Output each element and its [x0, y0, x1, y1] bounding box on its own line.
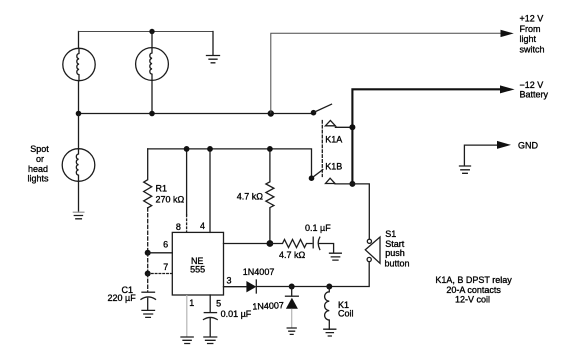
switch: light switch arm on lamps bus	[311, 104, 332, 115]
text: Spot or head lights	[27, 144, 49, 184]
wire: rail K1 to D2	[292, 286, 330, 288]
pin 1 label	[189, 298, 194, 308]
text: 4.7 kOhm (vertical resistor)	[237, 192, 264, 202]
svg-text:lights: lights	[27, 174, 49, 184]
svg-text:K1A, B DPST relay: K1A, B DPST relay	[435, 275, 512, 285]
svg-text:3: 3	[226, 275, 231, 285]
text: 1N4007 (D2)	[252, 300, 284, 311]
junction dot K1 coil top	[326, 284, 332, 290]
resistor 4.7k (vertical)	[266, 149, 274, 244]
capacitor C1 220uF (polarized)	[141, 274, 156, 311]
text: K1A, B DPST relay note	[435, 275, 512, 305]
ground (pin 5 / C2)	[204, 337, 217, 344]
pin 3 label	[226, 275, 231, 285]
arrowhead +12V	[501, 30, 514, 37]
svg-text:From: From	[520, 24, 541, 34]
junction dot D2	[289, 284, 295, 290]
wire: pin 6	[148, 252, 173, 254]
svg-text:GND: GND	[518, 140, 539, 150]
svg-text:5: 5	[216, 299, 221, 309]
wire: threshold pin to node	[224, 243, 270, 245]
svg-text:switch: switch	[520, 44, 545, 54]
svg-text:light: light	[520, 34, 537, 44]
push button S1	[365, 237, 380, 263]
svg-text:1N4007: 1N4007	[252, 300, 284, 311]
wire: pin6-pin7 vertical (dashed)	[147, 253, 149, 274]
lamp (top-middle)	[136, 48, 169, 81]
wire: GND tail	[464, 145, 499, 165]
wire: -12V battery (thick)	[352, 89, 501, 127]
pin 7 label	[163, 262, 168, 272]
pin 8 label	[176, 222, 181, 232]
svg-text:220 µF: 220 µF	[108, 293, 137, 303]
ground (pin 1)	[181, 337, 193, 344]
svg-text:Battery: Battery	[520, 90, 549, 100]
wire: bus2 from R1 to K1B arm	[148, 149, 312, 178]
text: C1	[122, 285, 134, 295]
text: K1B	[325, 162, 342, 172]
svg-text:button: button	[385, 259, 410, 269]
wire: top-left horizontal from lamp1 over lamp2 to ground	[79, 32, 214, 49]
junction dot pin7 node	[145, 271, 151, 277]
wire: lamp3 top stem	[78, 114, 80, 150]
svg-text:Coil: Coil	[338, 309, 354, 319]
svg-text:K1B: K1B	[325, 162, 342, 172]
wire: K1A to K1B common vertical	[351, 127, 353, 184]
junction dot pin8-bus2	[184, 146, 190, 152]
wire: D1 anode to pin3	[224, 286, 247, 288]
junction dot 4.7k top	[267, 146, 273, 152]
wire: S1 bottom to rail	[329, 262, 369, 287]
diode D1 1N4007 (horizontal)	[246, 280, 256, 293]
junction dot pin4-bus2	[207, 146, 213, 152]
svg-text:S1: S1	[385, 229, 396, 239]
wire: lamp2 bottom to bus	[151, 80, 153, 113]
svg-text:R1: R1	[156, 184, 168, 194]
wire: main lamps bus	[79, 113, 314, 115]
junction dot bus-lamp1	[76, 111, 82, 117]
arrowhead -12V	[500, 85, 515, 93]
wire: rail D2 to D1 cathode	[257, 286, 292, 288]
wire: pin 1 (light)	[186, 295, 188, 337]
ground (0.1uF)	[330, 253, 342, 260]
text: K1 Coil	[338, 300, 354, 319]
svg-text:−12 V: −12 V	[520, 80, 544, 90]
wire: pin 7 (dotted)	[148, 273, 173, 275]
ground (C1)	[142, 310, 155, 317]
svg-text:8: 8	[176, 222, 181, 232]
relay coil K1	[325, 287, 330, 330]
relay actuator dashed line	[321, 121, 323, 177]
svg-text:0.01 µF: 0.01 µF	[221, 309, 252, 319]
ground (top, right of lamp2)	[207, 32, 220, 63]
text: 220 uF	[108, 293, 137, 303]
svg-text:4.7 kΩ: 4.7 kΩ	[279, 250, 306, 260]
switch arm K1B	[312, 170, 323, 179]
wire: lamp2 top stem	[151, 32, 153, 49]
wire: pin 4	[209, 149, 211, 233]
junction dot K1B arm	[309, 175, 315, 181]
junction dot pin6 node	[145, 250, 151, 256]
wire: lamp1 bottom to bus	[78, 81, 80, 114]
svg-text:7: 7	[163, 262, 168, 272]
ground (K1 coil)	[324, 329, 336, 336]
junction dot at lamp2 stem on top wire	[149, 29, 154, 34]
text: S1 Start push button	[385, 229, 410, 269]
diode D2 1N4007 (vertical)	[286, 287, 299, 328]
svg-text:4.7 kΩ: 4.7 kΩ	[237, 192, 264, 202]
resistor 4.7k (horizontal)	[270, 240, 312, 248]
pin 4 label	[200, 221, 205, 231]
wire: pin 8 (solid then dotted)	[186, 149, 188, 233]
pin 6 label	[163, 239, 168, 249]
junction dot K1A common	[349, 124, 355, 130]
junction dot bus +12V feed	[268, 110, 274, 116]
svg-text:12-V coil: 12-V coil	[455, 294, 490, 304]
wire: K1B common to push button	[352, 184, 369, 239]
arrowhead GND	[497, 141, 511, 149]
text: R1 / 270 kOhm	[156, 184, 185, 205]
wire: +12V feed (vertical from bus, horizontal to arrow)	[271, 33, 502, 113]
svg-text:+12 V: +12 V	[520, 14, 544, 24]
text: K1A	[325, 135, 342, 145]
svg-text:4: 4	[200, 221, 205, 231]
IC U1 NE555	[172, 232, 223, 295]
svg-text:head: head	[28, 164, 48, 174]
relay contact K1B fixed triangle	[326, 178, 353, 184]
resistor R1 270k (vertical)	[144, 149, 152, 251]
svg-text:6: 6	[163, 239, 168, 249]
text: 0.01 uF	[221, 309, 252, 319]
text: 4.7 kOhm (horizontal resistor)	[279, 250, 306, 260]
ground (D2)	[287, 328, 296, 334]
svg-text:1: 1	[189, 298, 194, 308]
svg-text:0.1 µF: 0.1 µF	[305, 223, 331, 233]
wire: lamp3 bottom	[78, 181, 80, 212]
svg-text:K1A: K1A	[325, 135, 342, 145]
svg-text:1N4007: 1N4007	[243, 267, 275, 277]
ground (below lamp3)	[73, 212, 85, 219]
lamp (spot/head lights)	[62, 149, 95, 182]
text: +12 V From light switch	[520, 14, 545, 55]
junction dot pin2 node	[267, 240, 274, 247]
svg-text:push: push	[385, 248, 405, 258]
ground (GND symbol)	[460, 166, 471, 173]
capacitor 0.1uF	[313, 237, 333, 252]
svg-text:270 kΩ: 270 kΩ	[156, 194, 185, 204]
text: 1N4007 (D1)	[243, 267, 275, 277]
text: 0.1 uF	[305, 223, 331, 233]
text: GND	[518, 140, 539, 150]
junction dot K1B common	[349, 181, 355, 187]
svg-text:555: 555	[190, 265, 205, 275]
junction dot bus-lamp2	[149, 111, 155, 117]
lamp (top-left)	[63, 48, 95, 80]
relay contact K1A fixed triangle	[325, 120, 352, 127]
svg-text:or: or	[36, 154, 44, 164]
svg-text:Spot: Spot	[30, 144, 49, 154]
capacitor C2 0.01uF	[204, 295, 218, 337]
svg-text:20-A contacts: 20-A contacts	[446, 285, 501, 295]
text: -12 V Battery	[520, 80, 549, 100]
pin 5 label	[216, 299, 221, 309]
